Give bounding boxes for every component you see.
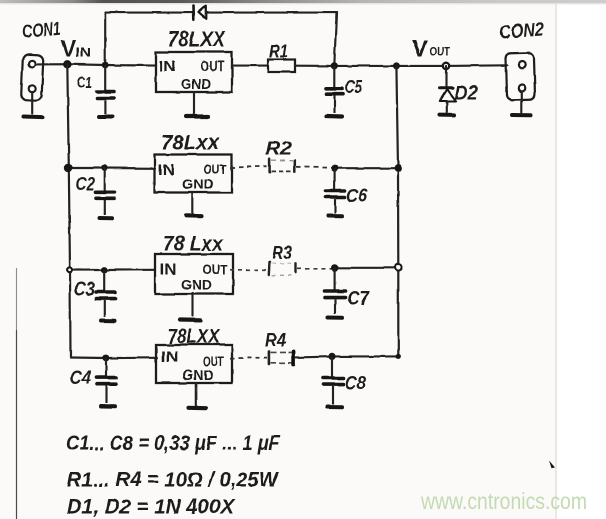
- label VOUT: [412, 36, 451, 63]
- label CON1: [22, 19, 62, 43]
- left scan artifact line: [16, 268, 18, 519]
- wire U2 GND lead: [191, 193, 193, 214]
- svg-text:IN: IN: [159, 59, 176, 76]
- label D2: [455, 83, 478, 104]
- node C3 tap: [101, 267, 108, 274]
- label 78LXX U4: [168, 326, 221, 348]
- diode D1: [194, 6, 206, 20]
- label C4: [70, 368, 91, 389]
- svg-text:IN: IN: [75, 46, 91, 60]
- pin label GND U1: [182, 77, 211, 93]
- wire row1 CON1 to U1: [35, 64, 156, 65]
- svg-text:GND: GND: [182, 77, 211, 93]
- op-amp U4 regulator 78Lxx box: [156, 345, 232, 384]
- svg-text:CON1: CON1: [22, 19, 62, 43]
- wire R3 to bus (dashed then solid): [298, 268, 399, 269]
- label 78LXX U1: [168, 27, 226, 52]
- watermark: [420, 488, 587, 514]
- svg-text:GND: GND: [182, 176, 214, 192]
- wire top D1 right segment: [206, 12, 337, 14]
- label 78 Lxx U3: [163, 233, 224, 256]
- wire output bus: [396, 66, 398, 356]
- svg-text:D2: D2: [455, 83, 478, 104]
- pin label IN U1: [159, 59, 176, 76]
- op-amp U2 regulator 78Lxx box: [155, 155, 232, 193]
- pin label IN U4: [161, 349, 179, 366]
- ground (CON2): [512, 113, 531, 117]
- pin label OUT U4: [203, 354, 225, 369]
- svg-text:C5: C5: [345, 77, 363, 97]
- node C4 tap: [103, 355, 110, 362]
- label 78Lxx U2: [161, 132, 220, 155]
- ground (C5): [327, 114, 343, 119]
- wire row2 bus to U2: [69, 167, 155, 169]
- ground (C8): [327, 405, 342, 409]
- label C6: [346, 186, 367, 207]
- pin label OUT U1: [201, 59, 225, 75]
- svg-text:IN: IN: [160, 262, 177, 279]
- svg-text:C2: C2: [76, 174, 95, 194]
- node C8 tap: [328, 353, 335, 360]
- svg-text:CON2: CON2: [499, 19, 545, 43]
- cursor mark: [549, 461, 555, 469]
- ground (C3): [101, 319, 115, 323]
- svg-text:GND: GND: [181, 277, 212, 293]
- capacitor C4: [97, 358, 117, 403]
- svg-text:V: V: [61, 36, 76, 61]
- pin label IN U2: [158, 162, 175, 179]
- label C2: [76, 174, 95, 194]
- ground (U3): [180, 318, 201, 323]
- node C7 tap: [331, 264, 338, 271]
- capacitor C8: [323, 356, 344, 404]
- label R3: [272, 243, 292, 263]
- resistor R2: [270, 159, 295, 172]
- label R4: [265, 330, 286, 350]
- pin label OUT U2: [204, 162, 228, 177]
- node C6 tap: [331, 165, 338, 172]
- connector CON2: [506, 53, 535, 112]
- node bus row2: [394, 164, 402, 172]
- svg-text:R2: R2: [265, 139, 292, 159]
- svg-text:C1... C8 = 0,33 μF ... 1 μF: C1... C8 = 0,33 μF ... 1 μF: [66, 432, 281, 455]
- label R2: [265, 139, 292, 159]
- svg-text:C1: C1: [77, 73, 92, 92]
- pin label OUT U3: [203, 263, 229, 278]
- resistor R1: [268, 60, 295, 73]
- svg-text:D1, D2 = 1N 400X: D1, D2 = 1N 400X: [67, 496, 236, 519]
- ground (C7): [328, 316, 343, 320]
- label C8: [345, 374, 366, 395]
- wire left bus: [67, 64, 70, 357]
- ground (C4): [101, 404, 115, 408]
- svg-text:OUT: OUT: [203, 263, 229, 278]
- svg-text:C7: C7: [347, 289, 370, 310]
- wire U4 OUT to R4 (dashed): [230, 357, 267, 360]
- svg-text:C4: C4: [70, 368, 91, 389]
- capacitor C3: [96, 270, 115, 317]
- wire U3 OUT to R3 (dashed): [230, 269, 266, 271]
- svg-text:R1: R1: [269, 42, 288, 62]
- op-amp U1 regulator 78Lxx box: [156, 52, 232, 92]
- svg-text:www.cntronics.com: www.cntronics.com: [420, 488, 587, 514]
- pin label GND U3: [181, 277, 212, 293]
- label C5: [345, 77, 363, 97]
- pin label GND U2: [182, 176, 214, 192]
- ground (C2): [100, 216, 113, 220]
- wire row3 bus to U3: [70, 269, 155, 271]
- resistor R3: [269, 262, 296, 276]
- label CON2: [499, 19, 545, 43]
- ground (U2): [186, 214, 202, 219]
- svg-text:78 Lxx: 78 Lxx: [163, 233, 224, 256]
- capacitor C5: [326, 66, 344, 113]
- wire riser x105 top (to row1): [104, 13, 106, 65]
- wire R2 to bus (dashed then solid): [297, 167, 399, 168]
- svg-text:C8: C8: [345, 374, 366, 395]
- svg-text:GND: GND: [183, 368, 214, 384]
- wire U2 OUT to R2 (dashed): [230, 166, 267, 167]
- ground (C1): [99, 115, 113, 119]
- wire riser x335 top (to row1): [334, 13, 336, 66]
- ground (U1): [186, 114, 208, 118]
- pin label IN U3: [160, 262, 177, 279]
- svg-text:R3: R3: [272, 243, 292, 263]
- wire U3 GND lead: [191, 293, 193, 316]
- node C2 tap: [101, 165, 108, 172]
- svg-text:OUT: OUT: [203, 354, 225, 369]
- label VIN: [61, 36, 91, 61]
- top scan bar: [0, 0, 606, 4]
- svg-text:C6: C6: [346, 186, 367, 207]
- svg-text:OUT: OUT: [201, 59, 225, 75]
- node bus row4 corner: [396, 354, 401, 359]
- value note R1...R4: [67, 469, 280, 492]
- svg-text:IN: IN: [158, 162, 175, 179]
- value note C1...C8: [66, 432, 281, 455]
- paper edge line: [555, 4, 557, 519]
- node C5 tap: [331, 62, 338, 69]
- svg-text:OUT: OUT: [430, 45, 452, 59]
- capacitor C6: [326, 168, 345, 213]
- value note D1,D2: [67, 496, 236, 519]
- node output bus top: [393, 62, 400, 69]
- svg-text:IN: IN: [161, 349, 179, 366]
- wire row4 bus to U4: [71, 356, 158, 359]
- wire R1 to CON2 (row1 output): [295, 64, 508, 67]
- svg-text:78LXX: 78LXX: [168, 326, 221, 348]
- ground (U4): [189, 406, 206, 411]
- resistor R4: [269, 351, 294, 364]
- node row2 left: [64, 164, 72, 172]
- label C3: [74, 280, 95, 301]
- pin label GND U4: [183, 368, 214, 384]
- connector CON1: [21, 54, 43, 114]
- svg-text:78LXX: 78LXX: [168, 27, 226, 52]
- ground (D2): [440, 113, 455, 117]
- svg-text:C3: C3: [74, 280, 95, 301]
- svg-text:V: V: [412, 36, 428, 63]
- wire top D1 left segment: [105, 12, 193, 14]
- ground (CON1): [23, 115, 43, 120]
- node row3 left: [67, 267, 72, 272]
- label C1: [77, 73, 92, 92]
- wire U1 OUT to R1: [232, 65, 268, 67]
- capacitor C7: [325, 268, 346, 314]
- svg-text:R4: R4: [265, 330, 286, 350]
- wire U4 GND lead: [195, 383, 197, 406]
- wire U1 GND lead: [193, 92, 195, 114]
- node bus row3: [395, 264, 402, 271]
- svg-text:R1... R4 = 10Ω / 0,25W: R1... R4 = 10Ω / 0,25W: [67, 469, 280, 492]
- diode D2: [440, 66, 456, 113]
- node VIN junction: [63, 60, 71, 68]
- capacitor C2: [96, 168, 115, 215]
- label C7: [347, 289, 370, 310]
- ground (C6): [328, 214, 342, 218]
- op-amp U3 regulator 78Lxx box: [155, 254, 233, 294]
- node D2 tap: [443, 63, 449, 69]
- capacitor C1: [97, 65, 115, 114]
- node C1 tap: [102, 62, 109, 69]
- wire R4 to bus (solid): [296, 356, 398, 357]
- label R1: [269, 42, 288, 62]
- svg-text:78Lxx: 78Lxx: [161, 132, 220, 155]
